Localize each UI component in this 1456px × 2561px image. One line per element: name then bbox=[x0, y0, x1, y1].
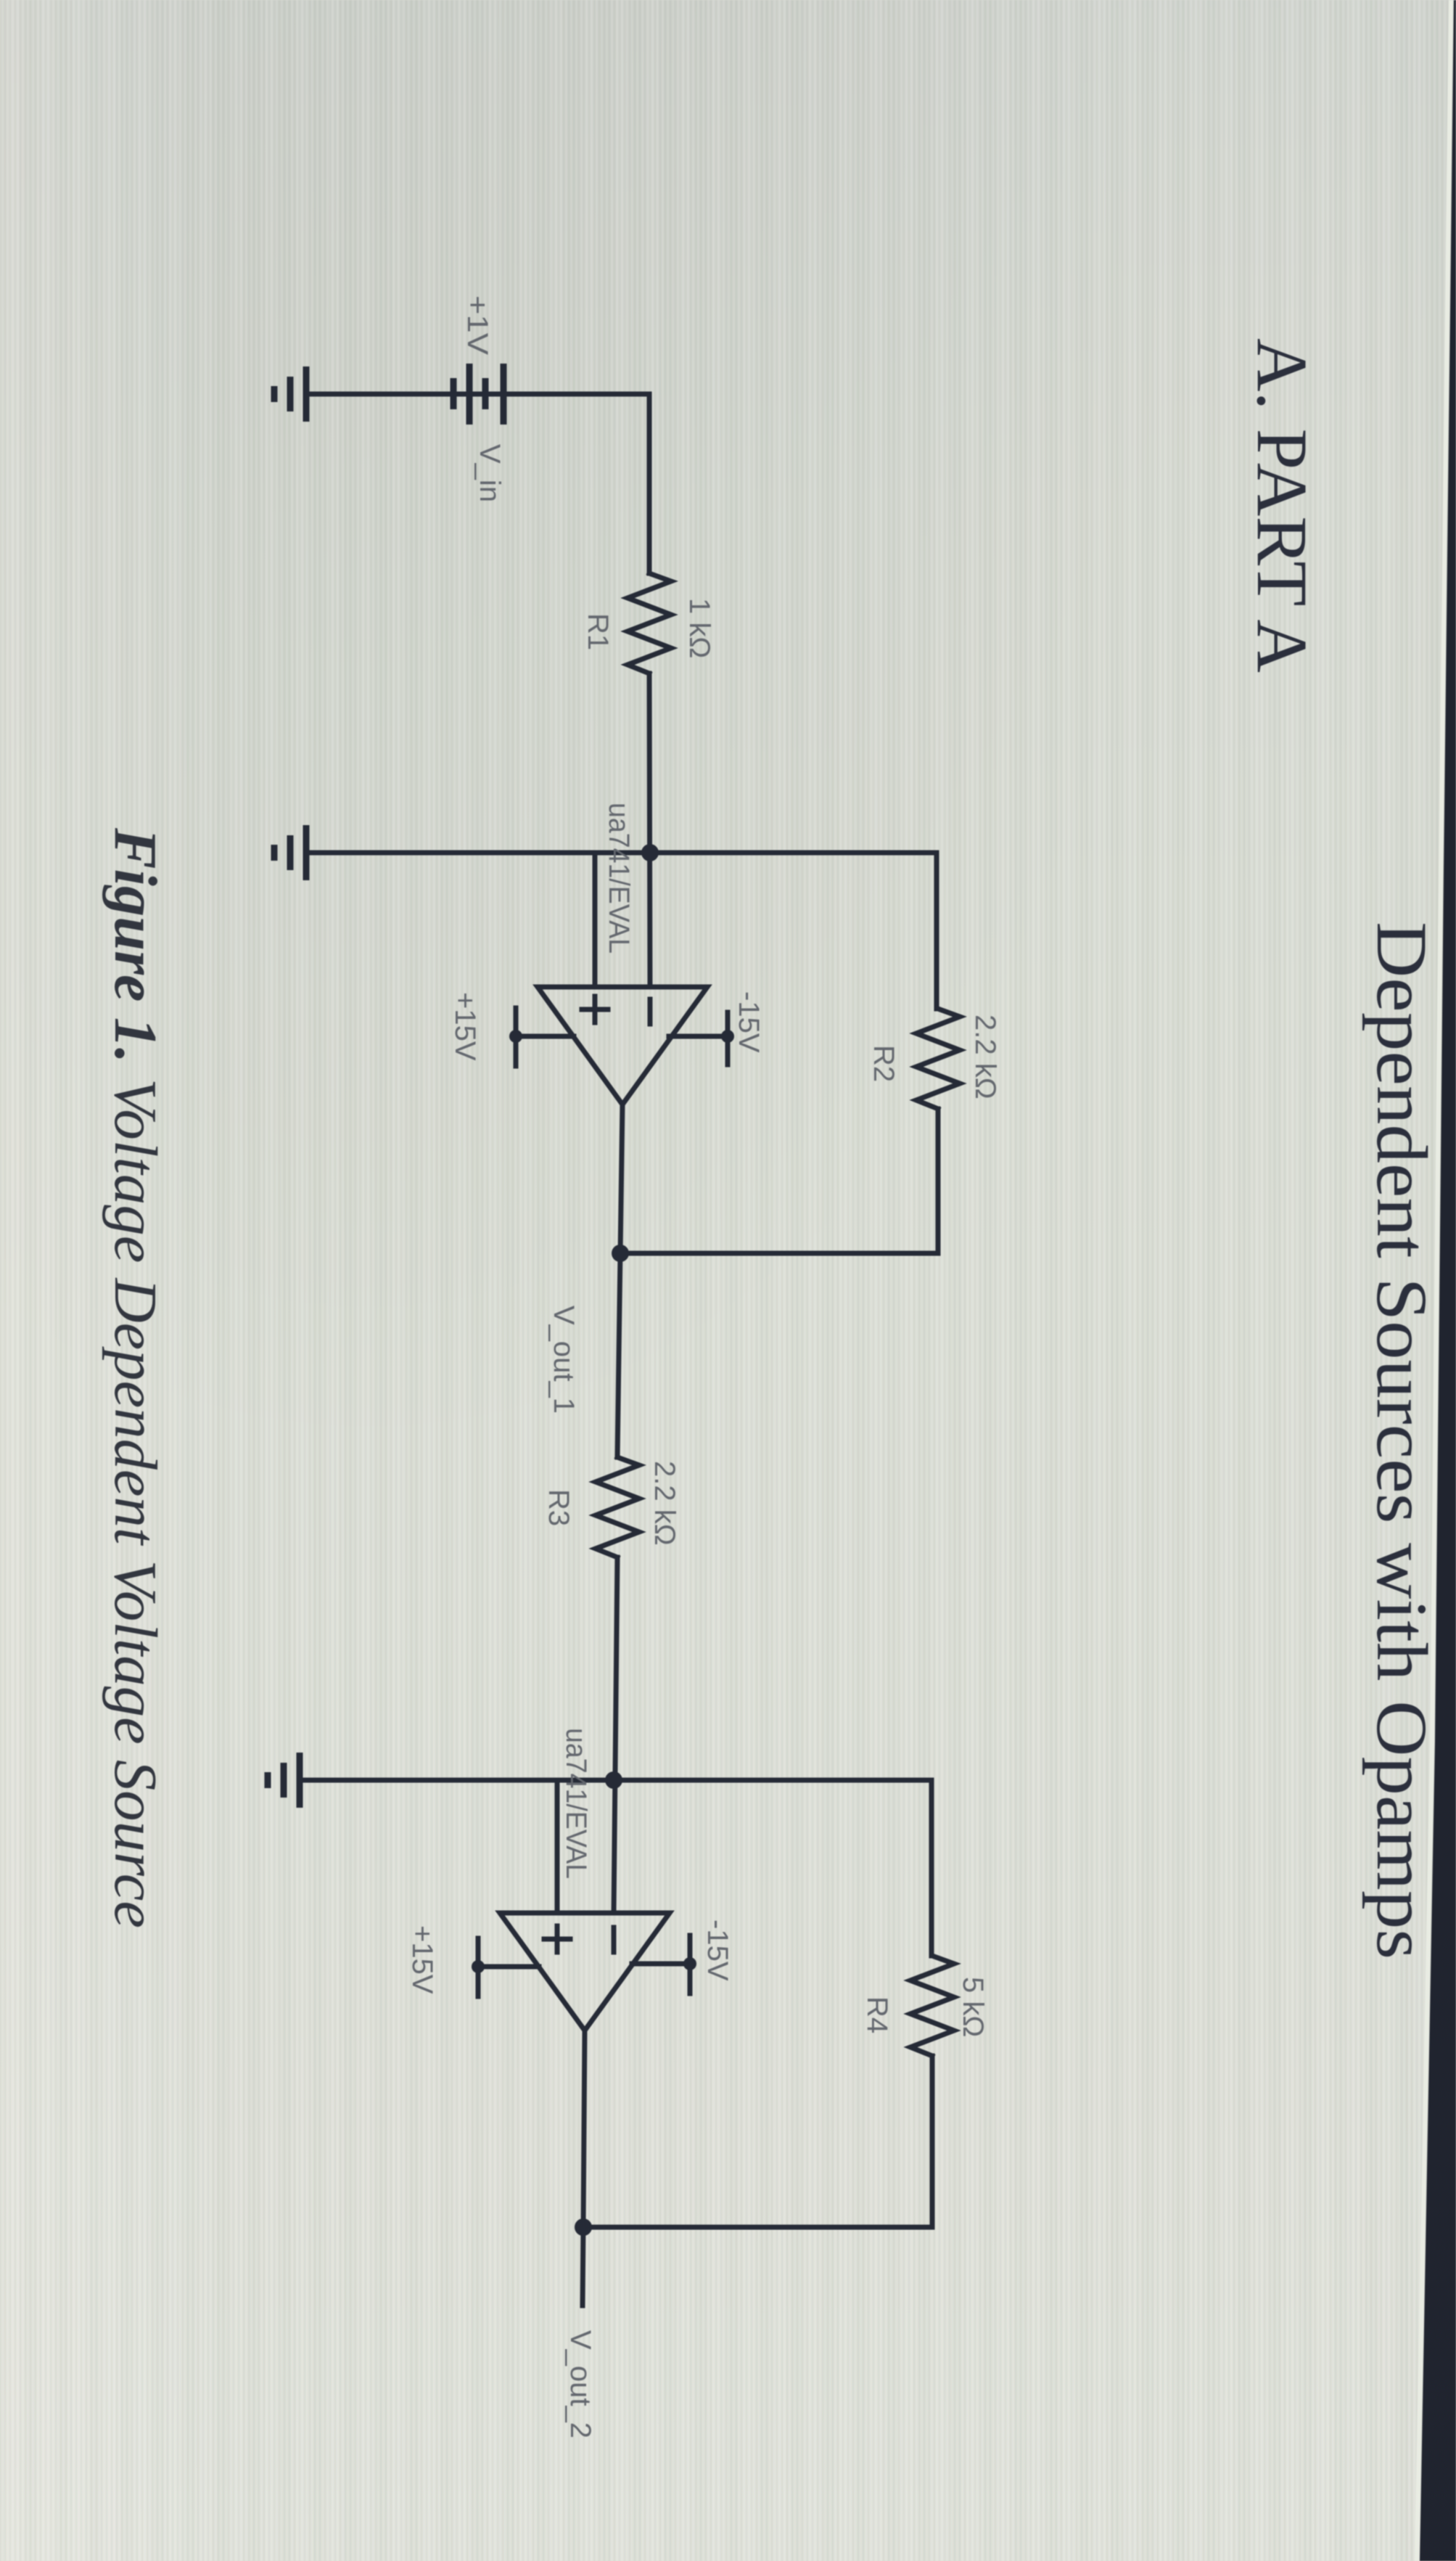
svg-text:5 kΩ: 5 kΩ bbox=[957, 1977, 989, 2037]
battery V_in plates: long top bbox=[501, 364, 507, 425]
ground G1 bars (under V_in) bbox=[274, 366, 306, 422]
U1 minus glyph bbox=[648, 999, 653, 1024]
junction node V_out_1 bbox=[612, 1245, 629, 1262]
svg-text:+15V: +15V bbox=[449, 992, 481, 1061]
U1 +15V power stem and bar bbox=[516, 1008, 574, 1066]
resistor R4 zigzag bbox=[910, 1956, 954, 2056]
resistor R2 zigzag bbox=[916, 1009, 960, 1109]
battery V_in plates: short bottom bbox=[451, 378, 457, 409]
power pin dot U1 +15V bbox=[509, 1030, 522, 1043]
wire: feedback top stage 2 left part bbox=[929, 1780, 934, 1956]
wire: U2 output to node V_out_2 bbox=[583, 2031, 585, 2227]
ground G2 bars (U1 plus input) bbox=[274, 825, 306, 880]
svg-text:-15V: -15V bbox=[702, 1919, 733, 1981]
wire: U1 output to node V_out_1 bbox=[620, 1105, 622, 1253]
svg-text:V_in: V_in bbox=[474, 444, 506, 502]
battery V_in plates: long bbox=[466, 364, 473, 425]
svg-text:Figure 1. Voltage Dependent Vo: Figure 1. Voltage Dependent Voltage Sour… bbox=[102, 827, 169, 1928]
svg-text:ua741/EVAL: ua741/EVAL bbox=[560, 1728, 592, 1879]
U2 plus glyph bbox=[544, 1926, 570, 1952]
op-amp U2 triangle bbox=[500, 1913, 670, 2031]
U1 plus glyph bbox=[582, 996, 608, 1023]
svg-text:2.2 kΩ: 2.2 kΩ bbox=[649, 1461, 680, 1546]
wire: V_in column (corner to ground) bbox=[308, 392, 649, 397]
junction node J3 (R3 / feedback / U2 minus) bbox=[605, 1771, 622, 1789]
svg-text:V_out_1: V_out_1 bbox=[548, 1306, 580, 1414]
svg-text:+15V: +15V bbox=[406, 1925, 438, 1994]
wire: V_out_2 stub bbox=[583, 2227, 583, 2306]
battery V_in plates: short bbox=[482, 378, 489, 409]
wire: R4 to feedback right column stage 2 bbox=[930, 2056, 935, 2227]
wire: feedback top stage 1 left part bbox=[934, 853, 939, 1009]
U1 -15V power stem and bar bbox=[669, 1012, 728, 1065]
junction node V_out_2 bbox=[575, 2218, 592, 2236]
svg-text:R2: R2 bbox=[868, 1045, 900, 1082]
ground G3 bars (U2 plus input) bbox=[268, 1753, 300, 1808]
wire: R1 to op-amp U1 minus input bbox=[649, 673, 650, 987]
svg-text:R3: R3 bbox=[543, 1489, 575, 1526]
svg-text:Dependent Sources with Opamps: Dependent Sources with Opamps bbox=[1362, 922, 1442, 1959]
svg-text:R1: R1 bbox=[582, 613, 614, 650]
svg-text:2.2 kΩ: 2.2 kΩ bbox=[969, 1015, 1001, 1099]
power pin dot U2 +15V bbox=[472, 1960, 485, 1973]
wire: feedback column stage 1 (top to ground G2) bbox=[308, 851, 937, 856]
wire: R2 to feedback right column bbox=[936, 1109, 941, 1253]
screen edge highlight line bbox=[1417, 0, 1451, 2561]
junction node J1 (R1 / feedback / U1 minus) bbox=[641, 844, 659, 861]
wire: U1 plus input bbox=[593, 853, 598, 987]
U2 -15V power stem and bar bbox=[632, 1935, 690, 1994]
wire: V_out_1 node to R3 bbox=[617, 1253, 620, 1457]
wire: U2 plus input bbox=[555, 1780, 560, 1913]
dark bezel band along top bbox=[1420, 0, 1456, 2561]
wire: feedback right column down to output node stage 1 bbox=[620, 1251, 938, 1256]
U2 +15V power stem and bar bbox=[478, 1938, 539, 1996]
power pin dot U1 -15V bbox=[721, 1030, 734, 1043]
wire: R3 to op-amp U2 minus input bbox=[614, 1557, 617, 1913]
svg-text:A. PART A: A. PART A bbox=[1242, 338, 1323, 673]
svg-text:R4: R4 bbox=[861, 1996, 893, 2033]
wire: feedback right column down to output node stage 2 bbox=[583, 2225, 932, 2230]
svg-text:1 kΩ: 1 kΩ bbox=[683, 598, 715, 658]
power pin dot U2 -15V bbox=[683, 1957, 696, 1970]
resistor R1 zigzag bbox=[628, 573, 671, 673]
svg-text:V_out_2: V_out_2 bbox=[564, 2330, 596, 2438]
resistor R3 zigzag bbox=[596, 1457, 639, 1557]
op-amp U1 triangle bbox=[538, 987, 707, 1105]
svg-text:+1V: +1V bbox=[461, 295, 493, 355]
wire: feedback column stage 2 (top to ground G3) bbox=[300, 1778, 931, 1783]
svg-text:ua741/EVAL: ua741/EVAL bbox=[603, 803, 635, 954]
wire: corner to R1 bbox=[647, 394, 652, 573]
svg-text:-15V: -15V bbox=[733, 991, 765, 1053]
U2 minus glyph bbox=[612, 1927, 617, 1952]
